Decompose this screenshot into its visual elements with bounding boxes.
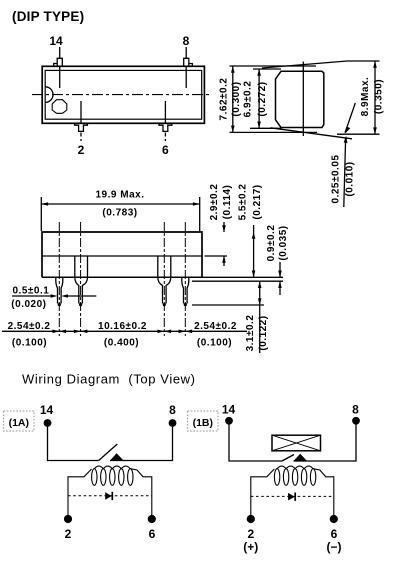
svg-text:(0.114): (0.114) [222, 185, 233, 220]
svg-text:(1B): (1B) [193, 417, 213, 429]
1B switch blade [282, 455, 294, 462]
svg-text:5.5±0.2: 5.5±0.2 [238, 184, 249, 221]
svg-text:2.9±0.2: 2.9±0.2 [209, 184, 220, 221]
19.9 extension line left [40, 197, 42, 231]
svg-text:2: 2 [247, 527, 254, 541]
pitch arrows at pin 1 [53, 330, 60, 334]
base bottom line [42, 276, 202, 278]
0.25 upper leader line [345, 103, 355, 133]
pin 2 needle [75, 277, 88, 303]
1B crossed box contact [272, 435, 321, 451]
pin 14 inner lead [59, 66, 61, 88]
svg-text:(0.020): (0.020) [11, 299, 46, 310]
svg-text:(0.010): (0.010) [344, 161, 355, 196]
pin 2 stub dashes [80, 133, 82, 142]
svg-text:14: 14 [49, 34, 63, 48]
top draft slant line [262, 61, 347, 68]
svg-text:(0.350): (0.350) [374, 79, 385, 114]
pin 2 shoulder block [75, 256, 88, 277]
svg-text:2: 2 [65, 527, 72, 541]
pin 8 inner lead [185, 66, 187, 88]
svg-text:(0.272): (0.272) [257, 81, 268, 116]
bottom draft slant line [271, 128, 353, 139]
5.5 dimension line [253, 225, 255, 277]
standoff line right [192, 280, 283, 282]
svg-text:(0.035): (0.035) [278, 225, 289, 260]
svg-text:(0.100): (0.100) [12, 338, 47, 349]
seam extension line right [205, 255, 228, 257]
horizontal center line [32, 94, 212, 96]
svg-text:6: 6 [149, 527, 156, 541]
pin 8 stub [185, 47, 187, 58]
svg-text:(DIP TYPE): (DIP TYPE) [12, 9, 84, 24]
0.9 dimension line [279, 262, 281, 277]
svg-text:2.54±0.2: 2.54±0.2 [8, 321, 51, 332]
1A wire to 8 [110, 423, 173, 461]
pin 14 tab [54, 58, 63, 66]
8.9 dimension line [374, 61, 376, 134]
svg-text:2: 2 [78, 143, 85, 157]
1B terminal 6 [330, 515, 338, 523]
svg-text:14: 14 [222, 403, 236, 417]
19.9 extension line right [199, 197, 201, 231]
svg-text:8: 8 [169, 403, 176, 417]
vertical parting line [302, 62, 304, 136]
7.62 dimension line [232, 66, 234, 132]
inner case rectangle [45, 70, 202, 119]
svg-text:0.5±0.1: 0.5±0.1 [13, 286, 50, 297]
svg-text:7.62±0.2: 7.62±0.2 [218, 78, 229, 121]
2.9 dimension line [223, 222, 225, 232]
7.62 extension line top [230, 65, 317, 67]
1B terminal 8 [352, 417, 360, 425]
pin 8 tab [184, 58, 193, 66]
svg-text:(−): (−) [327, 540, 342, 554]
1A terminal 8 [169, 419, 177, 427]
1A switch blade [99, 444, 118, 461]
pin 1 shoulder and needle [56, 277, 63, 303]
6.9 extension line bottom [250, 127, 282, 129]
svg-text:6: 6 [162, 143, 169, 157]
svg-text:0.9±0.2: 0.9±0.2 [266, 225, 277, 262]
orientation mark octagon [52, 100, 67, 114]
pin 14 stub [59, 47, 61, 58]
svg-text:(0.122): (0.122) [258, 315, 269, 350]
0.5 leader and arrows [12, 295, 51, 297]
3.1 dimension line [259, 281, 261, 353]
svg-text:10.16±0.2: 10.16±0.2 [98, 321, 147, 332]
svg-text:(+): (+) [243, 540, 258, 554]
svg-text:0.25±0.05: 0.25±0.05 [330, 155, 341, 204]
pin 6 stub dashes [164, 133, 166, 142]
pin 2 tab [75, 123, 88, 131]
pitch arrows at pin 4 [179, 330, 186, 334]
svg-text:(0.400): (0.400) [104, 338, 139, 349]
svg-text:8.9Max.: 8.9Max. [360, 77, 371, 117]
6.9 extension line top [253, 68, 281, 70]
8.9 extension line top [347, 60, 380, 62]
pin 4 center line [184, 222, 186, 336]
svg-text:19.9 Max.: 19.9 Max. [96, 190, 145, 201]
0.25 leader line [344, 139, 346, 207]
1B terminal 2 [247, 515, 255, 523]
pin 3 needle [158, 277, 171, 303]
1A wire from 14 [48, 423, 99, 461]
1B wire to 8 [294, 421, 357, 461]
outer case rectangle [42, 66, 204, 123]
svg-text:(0.783): (0.783) [102, 208, 137, 219]
1A fixed contact [110, 453, 124, 460]
svg-text:3.1±0.2: 3.1±0.2 [245, 315, 256, 352]
pin 6 tab [159, 123, 172, 131]
6.9 dimension line [258, 69, 260, 128]
1A coil L1 [68, 466, 152, 515]
pin 2 inner lead [80, 101, 82, 123]
svg-text:2.54±0.2: 2.54±0.2 [194, 321, 237, 332]
7.62 extension line bottom [230, 131, 318, 133]
svg-text:6: 6 [331, 527, 338, 541]
svg-text:(1A): (1A) [9, 417, 29, 429]
orientation notch semicircle [45, 87, 53, 103]
end view body [276, 71, 324, 127]
svg-text:6.9±0.2: 6.9±0.2 [242, 81, 253, 118]
body/base seam line [42, 255, 202, 257]
pin 3 shoulder block [158, 256, 171, 277]
19.9 dimension line [41, 203, 199, 205]
svg-text:Wiring Diagram (Top View): Wiring Diagram (Top View) [22, 372, 196, 387]
pin 4 shoulder and needle [182, 277, 189, 303]
label box 1B [188, 411, 219, 431]
pin 2 center line [80, 222, 82, 336]
pin 3 center line [163, 222, 165, 336]
1B wire from 14 [229, 421, 282, 461]
pin 6 inner lead [164, 101, 166, 123]
pitch dimension line [2, 330, 247, 332]
1A protection diode dashed line [68, 495, 152, 497]
base bottom extension right [202, 276, 283, 278]
pitch arrows at pin 3 [158, 330, 165, 334]
svg-text:(0.100): (0.100) [197, 338, 232, 349]
svg-text:(0.300): (0.300) [231, 81, 242, 116]
pitch arrows at pin 2 [74, 330, 81, 334]
svg-text:(0.217): (0.217) [252, 184, 263, 219]
svg-text:8: 8 [183, 34, 190, 48]
1B fixed contact [294, 454, 308, 461]
1A diode [105, 492, 112, 500]
svg-text:8: 8 [352, 403, 359, 417]
pin tip plane line [192, 304, 264, 306]
1A terminal 6 [148, 515, 156, 523]
1A terminal 2 [64, 515, 72, 523]
1B protection diode dashed line [251, 495, 334, 497]
8.9 extension line bottom [337, 133, 380, 135]
label box 1A [4, 411, 35, 431]
1B coil L1 [251, 466, 334, 515]
pin 1 center line [58, 222, 60, 336]
svg-text:14: 14 [40, 403, 54, 417]
relay body outline [42, 232, 202, 277]
1B diode [288, 493, 295, 501]
